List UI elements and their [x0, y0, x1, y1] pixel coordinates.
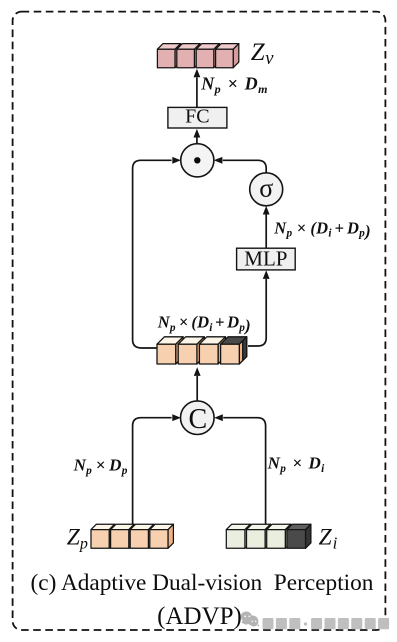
tensor Z_i (green cubes + gray cube)	[226, 524, 311, 548]
block MLP	[237, 246, 296, 270]
svg-text:Np×Di: Np×Di	[267, 454, 326, 475]
svg-text:σ: σ	[259, 174, 273, 203]
op: concatenation C	[181, 401, 215, 435]
wire: FC to Z_v tensor	[196, 77, 198, 107]
wire: C to concat row	[196, 376, 198, 401]
svg-text:Zv: Zv	[251, 39, 274, 69]
watermark text 公众号 · 具身智能之心 (drawn as gray glyph blocks)	[263, 618, 390, 629]
svg-text:C: C	[188, 404, 207, 435]
tensor Z_v (output, pink cubes)	[157, 44, 238, 68]
op: element-wise product (dot in circle)	[181, 144, 214, 177]
svg-text:MLP: MLP	[244, 246, 287, 270]
svg-text:FC: FC	[185, 106, 209, 128]
tensor Z_p (orange cubes)	[91, 524, 173, 548]
svg-text:(ADVP): (ADVP)	[157, 603, 242, 630]
op: sigmoid sigma	[250, 173, 283, 206]
svg-text:(c) Adaptive Dual-vision Perce: (c) Adaptive Dual-vision Perception	[31, 570, 374, 596]
svg-text:Np×(Di+Dp): Np×(Di+Dp)	[273, 218, 371, 240]
wire: Z_p to C	[133, 418, 172, 526]
svg-text:Np×Dm: Np×Dm	[200, 74, 268, 96]
svg-text:Zi: Zi	[319, 525, 338, 553]
watermark logo	[241, 612, 260, 627]
svg-text:Zp: Zp	[67, 524, 88, 552]
wire: concat row to dot-product (left branch)	[133, 160, 172, 348]
wire: Z_i to C	[223, 418, 265, 526]
block FC	[168, 106, 227, 128]
wire: dot-product to FC	[196, 138, 198, 144]
svg-text:Np×(Di+Dp): Np×(Di+Dp)	[157, 313, 251, 335]
wire: MLP to sigma	[265, 215, 267, 249]
svg-text:Np×Dp: Np×Dp	[73, 456, 128, 477]
wire: concat row to MLP (right branch)	[248, 279, 266, 346]
wire: sigma to dot-product	[223, 160, 266, 173]
tensor concat(Z_p,Z_i) (orange cubes, dark tail)	[157, 337, 247, 364]
